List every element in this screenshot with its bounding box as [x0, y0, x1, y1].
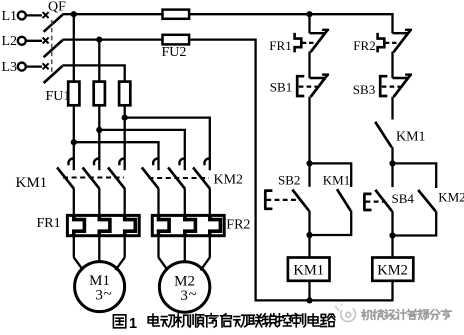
wire: [308, 97, 310, 164]
svg-text:QF: QF: [48, 0, 66, 15]
wire: [308, 52, 310, 78]
node: [389, 160, 395, 166]
wire: [26, 40, 42, 42]
svg-text:L2: L2: [2, 34, 18, 49]
wire: [74, 142, 159, 170]
pushbutton SB2 (NO start): [264, 163, 309, 235]
contactor KM1 main contacts: [16, 159, 125, 216]
wire: [310, 14, 393, 33]
motor M2: [159, 236, 210, 312]
fuse FU2a: [163, 10, 190, 19]
wire: [98, 40, 100, 82]
wire L2 bus: [62, 38, 162, 40]
fuse FU2b: [163, 35, 190, 45]
svg-text:FR2: FR2: [353, 38, 375, 53]
wire: [391, 52, 393, 78]
svg-text:KM2: KM2: [438, 189, 464, 204]
node tap L2b: [96, 127, 102, 133]
node: [389, 232, 395, 238]
node tap L3b: [71, 139, 77, 145]
wire: [26, 65, 42, 67]
thermal relay FR1 heater: [37, 214, 140, 237]
svg-text:~: ~: [104, 287, 112, 303]
wire: [125, 118, 210, 171]
wire: [73, 105, 75, 170]
wire: [99, 130, 185, 170]
wire L2 return to bottom bus: [189, 40, 256, 301]
svg-text:SB4: SB4: [392, 191, 415, 206]
coil KM1: [288, 235, 330, 300]
terminal L3: [2, 60, 26, 75]
pushbutton SB4 (NO start): [363, 163, 414, 235]
label FU2: [162, 45, 187, 60]
fuse FU1-1: [68, 82, 79, 106]
wire: [98, 105, 100, 170]
contact KM1 sequence interlock (NO): [375, 122, 425, 164]
svg-text:KM1: KM1: [396, 129, 426, 144]
svg-text:SB2: SB2: [278, 173, 300, 188]
wire: [189, 13, 309, 15]
wire L3 bus: [62, 65, 124, 81]
node: [306, 297, 312, 303]
thermal relay FR2 heater: [152, 214, 250, 237]
thermal contact FR2 (NC): [353, 30, 412, 53]
motor M1: [74, 236, 125, 311]
fuse FU1-3: [119, 82, 130, 106]
contact KM2 seal-in (NO): [393, 163, 464, 235]
caption 图1 电动机顺序启动联锁控制电路: [113, 314, 334, 332]
svg-text:SB3: SB3: [353, 82, 375, 97]
svg-text:L1: L1: [2, 9, 18, 24]
svg-text:1: 1: [129, 316, 137, 332]
svg-text:KM1: KM1: [16, 175, 48, 191]
label FU1: [46, 89, 71, 104]
wire bottom bus: [255, 299, 394, 301]
node tap L1b: [122, 115, 128, 121]
wire: [391, 97, 393, 120]
thermal contact FR1 (NC): [269, 14, 329, 53]
svg-text:L3: L3: [2, 60, 18, 75]
contact KM1 seal-in (NO): [310, 163, 352, 235]
node L2-FU1b: [96, 37, 102, 43]
breaker QF: [43, 0, 67, 83]
node L1-FU1a: [71, 11, 77, 17]
wire: [26, 14, 42, 16]
wire: [73, 14, 75, 81]
terminal L1: [2, 9, 26, 24]
node: [306, 232, 312, 238]
node L1-FR1 branch: [306, 11, 312, 17]
svg-text:FR1: FR1: [37, 216, 61, 231]
pushbutton SB1 (NC stop): [270, 75, 329, 97]
svg-text:FU2: FU2: [162, 45, 187, 60]
svg-text:FU1: FU1: [46, 89, 71, 104]
svg-text:~: ~: [189, 287, 197, 303]
node: [306, 160, 312, 166]
wire L1 bus: [62, 13, 162, 15]
svg-text:KM1: KM1: [293, 263, 324, 279]
fuse FU1-2: [94, 82, 105, 106]
pushbutton SB3 (NC stop): [353, 75, 412, 97]
terminal L2: [2, 34, 26, 49]
svg-text:KM2: KM2: [377, 263, 408, 279]
svg-text:FR2: FR2: [226, 217, 250, 232]
contactor KM2 main contacts: [142, 159, 243, 216]
wire: [124, 105, 126, 170]
svg-text:3: 3: [95, 288, 103, 304]
svg-text:KM1: KM1: [323, 173, 350, 188]
watermark logo: [335, 304, 356, 322]
svg-text:SB1: SB1: [270, 80, 292, 95]
watermark text 机械设计资源分享: [362, 310, 451, 320]
svg-text:KM2: KM2: [214, 173, 244, 188]
svg-text:3: 3: [180, 288, 188, 304]
svg-text:FR1: FR1: [269, 38, 291, 53]
coil KM2: [372, 235, 413, 300]
